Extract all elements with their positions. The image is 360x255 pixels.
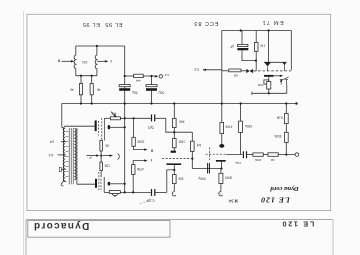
Dynacord logo box [28, 221, 170, 238]
inductor L1 output tap left [74, 46, 76, 76]
resistor R 1M em [254, 31, 258, 71]
svg-text:6,3k: 6,3k [276, 115, 283, 119]
border frame [27, 14, 331, 210]
svg-text:5μ5: 5μ5 [148, 125, 154, 129]
dashed cathode line em [258, 70, 291, 72]
mains stub 2 [58, 154, 66, 156]
title band left edge [25, 220, 27, 255]
EM71 box right [290, 31, 292, 71]
svg-text:LE 120: LE 120 [281, 220, 314, 229]
svg-text:330k: 330k [245, 124, 253, 128]
NFB corner [167, 170, 175, 193]
svg-text:4k: 4k [97, 87, 101, 91]
cathode bar triode A [167, 163, 182, 165]
wire grid to coupling [226, 154, 242, 156]
svg-text:300k: 300k [274, 134, 282, 138]
wire main vertical [124, 46, 126, 192]
resistor R plate B [220, 122, 224, 133]
transformer bottom wire [77, 183, 95, 185]
ground hook A [172, 192, 176, 196]
cathode bar triode B [216, 160, 226, 162]
title band right edge [332, 220, 334, 255]
svg-text:444: 444 [135, 79, 140, 83]
plate feed column B [221, 31, 223, 123]
svg-text:I: I [110, 59, 111, 64]
svg-text:400k: 400k [254, 158, 261, 162]
ground stub 4 [63, 180, 66, 182]
transformer top wire [64, 125, 95, 127]
wire HT bus [62, 103, 297, 105]
svg-text:6,3: 6,3 [49, 153, 54, 157]
fuse stub 3 [61, 168, 66, 170]
svg-text:50μ: 50μ [132, 91, 138, 95]
svg-text:II: II [151, 148, 153, 153]
svg-text:4k: 4k [70, 87, 74, 91]
capacitor C input 0,1uF [151, 189, 156, 196]
wiper arrow left [87, 155, 99, 157]
svg-text:0,1μF: 0,1μF [146, 199, 155, 203]
diode bowtie em [246, 69, 253, 73]
EM71 box top [222, 30, 291, 32]
svg-text:EL 95: EL 95 [105, 21, 123, 27]
EL84 no1 [95, 120, 97, 131]
svg-text:500μ: 500μ [198, 176, 206, 180]
svg-text:15k: 15k [104, 164, 110, 168]
svg-text:M 54: M 54 [229, 199, 239, 204]
title band top line [26, 219, 333, 221]
output tap arrow I [97, 60, 107, 62]
svg-text:470k: 470k [136, 167, 144, 171]
svg-text:I: I [151, 158, 152, 163]
divider column mid [100, 151, 102, 162]
svg-text:30k: 30k [178, 177, 184, 181]
inductor L2 output tap right [95, 46, 97, 76]
input I branch [133, 161, 146, 165]
right divider chain [285, 104, 287, 114]
svg-text:1M: 1M [270, 158, 275, 162]
resistor R Ybl column [268, 77, 270, 82]
svg-text:ECC 83: ECC 83 [194, 20, 219, 26]
svg-text:2M: 2M [233, 73, 238, 77]
bottom row speaker [104, 191, 109, 193]
wiper arrow right [103, 155, 112, 157]
resistor R 40k vertical [173, 118, 177, 127]
output row 155 [240, 104, 242, 122]
wire top output [76, 45, 125, 47]
wiper arrow over resistor [111, 112, 116, 117]
resistor R cathode A [172, 175, 176, 184]
transformer core [69, 128, 73, 184]
svg-text:LE 120: LE 120 [260, 195, 291, 204]
wire row 93 [252, 92, 286, 94]
eye target line [264, 61, 286, 63]
wire corner to mid row [166, 118, 193, 132]
grid dashes triode A [162, 158, 191, 160]
transformer tap ticks [65, 132, 68, 177]
resistor R cathode B 3000 [220, 169, 222, 174]
arc mark [118, 154, 120, 160]
eye wedge right [282, 62, 286, 65]
svg-text:50μ: 50μ [158, 91, 164, 95]
speaker [109, 191, 120, 194]
mains stub 1 [61, 141, 66, 143]
eye column [268, 31, 270, 63]
wire resistor column a [80, 76, 82, 84]
anode blob triode B [219, 144, 224, 148]
svg-text:1M5: 1M5 [178, 139, 185, 143]
svg-text:EL 95: EL 95 [82, 21, 100, 27]
svg-text:μF: μF [230, 44, 234, 48]
svg-text:100k: 100k [137, 140, 145, 144]
svg-text:2/4: 2/4 [50, 140, 55, 144]
eye ticks [267, 66, 269, 70]
transformer secondary winding [74, 129, 76, 180]
wire resistor column b [91, 76, 93, 84]
tiny value labels [49, 44, 283, 203]
volume column [191, 132, 193, 141]
wire coil bottom [76, 75, 97, 77]
svg-text:Dyna cord: Dyna cord [270, 185, 300, 192]
svg-text:1M: 1M [260, 44, 265, 48]
resistor R 1M5 [173, 139, 177, 148]
pin rect em [264, 80, 269, 84]
resistor R heater [134, 74, 144, 77]
svg-text:470k: 470k [225, 125, 233, 129]
left triode supply column [173, 104, 175, 119]
wire grid1 drop [103, 118, 105, 140]
svg-text:EM 71: EM 71 [261, 19, 283, 25]
pencil dash [140, 201, 151, 204]
grid2 corner [103, 177, 105, 192]
wire cathode riser B [221, 162, 223, 169]
resistor Rb [90, 84, 93, 95]
envelope dash triode B [209, 147, 211, 160]
capacitor C2 50u [146, 76, 157, 104]
svg-text:Dynacord: Dynacord [33, 220, 90, 231]
triode row em [222, 70, 229, 72]
capacitor C cathode bypass [207, 163, 210, 174]
terminal output [295, 153, 299, 157]
transformer primary winding [62, 128, 65, 182]
capacitor C uF em [237, 31, 256, 61]
terminal 6,3V [159, 75, 162, 78]
grid dashes triode B [206, 153, 227, 155]
wire cathode down [173, 165, 175, 175]
resistor R 1M volume [191, 141, 195, 151]
svg-text:40k: 40k [179, 120, 185, 124]
ground hook B [219, 191, 223, 195]
capacitor C1 50u [119, 85, 130, 91]
wire screen resistor row [104, 117, 110, 119]
svg-text:1M: 1M [196, 143, 201, 147]
transformer right line [76, 128, 78, 184]
svg-text:Ybl5: Ybl5 [257, 83, 263, 87]
eye wedge left [264, 62, 271, 66]
wire heater row [125, 75, 134, 77]
input II branch [133, 118, 135, 137]
arrow from bar [273, 75, 281, 77]
svg-text:0,5μ: 0,5μ [235, 161, 241, 165]
capacitor C 5u coupling [151, 114, 155, 121]
page edge line [23, 11, 25, 255]
svg-text:II: II [58, 59, 60, 64]
resistor Ra [79, 84, 82, 95]
output tap arrow II [62, 60, 73, 62]
heater terminal arrow [155, 75, 158, 77]
svg-text:6,3: 6,3 [164, 73, 169, 77]
svg-text:0,2: 0,2 [194, 67, 199, 71]
wire bus to transformer edge [61, 104, 63, 128]
EL84 no2 [95, 179, 97, 188]
resistor R 40k horizontal [110, 117, 120, 120]
annotation arrow 0,2 [203, 69, 222, 71]
anode bar triode A [171, 151, 176, 153]
svg-text:3000: 3000 [225, 175, 233, 179]
svg-text:8k: 8k [105, 143, 109, 147]
svg-text:40k: 40k [111, 112, 117, 116]
svg-text:451: 451 [82, 60, 88, 64]
heater bar em [264, 75, 273, 77]
switch em [280, 77, 289, 85]
